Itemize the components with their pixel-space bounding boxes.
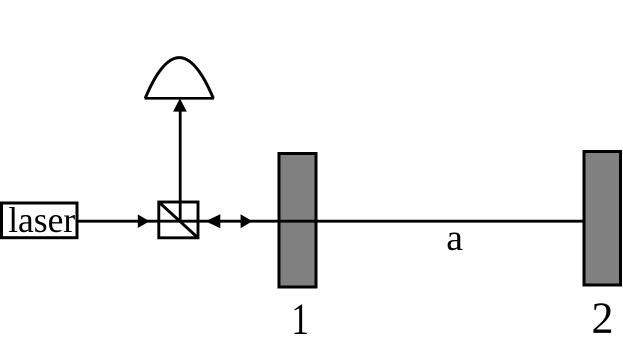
beam splitter cube — [159, 202, 198, 238]
arrowhead: rightward into beam splitter — [138, 214, 150, 228]
svg-text:a: a — [446, 218, 463, 259]
svg-text:2: 2 — [592, 294, 614, 343]
wire: beam splitter to detector — [179, 108, 182, 223]
laser box — [2, 203, 78, 238]
mirror 1 — [279, 154, 316, 288]
wire: beam laser to beam splitter — [77, 220, 159, 223]
wire: beam splitter to mirror 1 — [198, 220, 279, 223]
svg-text:laser: laser — [8, 200, 75, 240]
arrowhead: rightward toward mirror 1 — [241, 214, 253, 228]
detector dome — [145, 58, 214, 99]
svg-text:1: 1 — [291, 294, 309, 344]
arrowhead: leftward toward beam splitter — [205, 214, 220, 228]
mirror 2 — [584, 152, 621, 286]
arrowhead: upward into detector — [173, 98, 187, 111]
wire: cavity beam mirror 1 to mirror 2 (length a) — [279, 220, 583, 223]
wire: beam through beam splitter — [159, 220, 198, 223]
